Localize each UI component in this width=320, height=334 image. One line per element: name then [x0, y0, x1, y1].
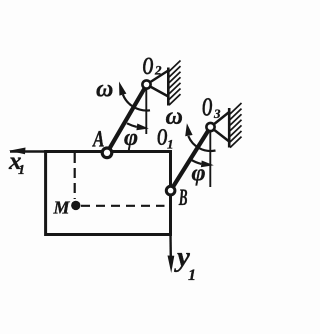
crank link O3-B — [171, 127, 211, 191]
dashed line M horizontal — [81, 205, 165, 207]
vertical reference line O3 — [209, 131, 211, 187]
svg-text:A: A — [92, 127, 105, 152]
crank link O2-A — [107, 85, 147, 153]
svg-text:ω: ω — [166, 104, 183, 130]
phi arc crank 1 — [127, 123, 137, 127]
dashed line M vertical — [74, 153, 76, 199]
x1 axis — [10, 150, 46, 152]
wall hatching O2 — [169, 61, 181, 106]
wall hatching O3 — [230, 103, 242, 148]
wall line O3 — [228, 108, 231, 148]
svg-text:O: O — [143, 53, 154, 80]
pin joint B — [166, 186, 175, 195]
pivot O3 — [206, 123, 214, 131]
wall line O2 — [167, 68, 170, 106]
svg-text:φ: φ — [192, 161, 206, 187]
svg-text:1: 1 — [18, 163, 25, 178]
svg-text:B: B — [178, 185, 187, 210]
pivot O2 — [142, 80, 150, 88]
omega arc crank 1 — [123, 95, 150, 111]
svg-text:φ: φ — [124, 125, 138, 151]
svg-text:1: 1 — [167, 137, 174, 152]
svg-text:O: O — [202, 93, 213, 122]
svg-text:2: 2 — [154, 63, 162, 78]
plate body — [46, 152, 171, 235]
bracket O2 — [147, 71, 169, 85]
svg-text:3: 3 — [213, 106, 221, 121]
svg-text:ω: ω — [96, 77, 113, 103]
omega arc crank 2 — [188, 136, 215, 151]
vertical reference line O2-O1 — [145, 89, 147, 134]
svg-text:1: 1 — [188, 267, 196, 284]
phi arc crank 2 — [190, 159, 202, 164]
pin joint A — [102, 148, 112, 158]
y1 axis — [169, 235, 172, 259]
bracket O3 — [211, 112, 230, 127]
svg-text:M: M — [53, 198, 71, 218]
point M — [71, 201, 80, 210]
